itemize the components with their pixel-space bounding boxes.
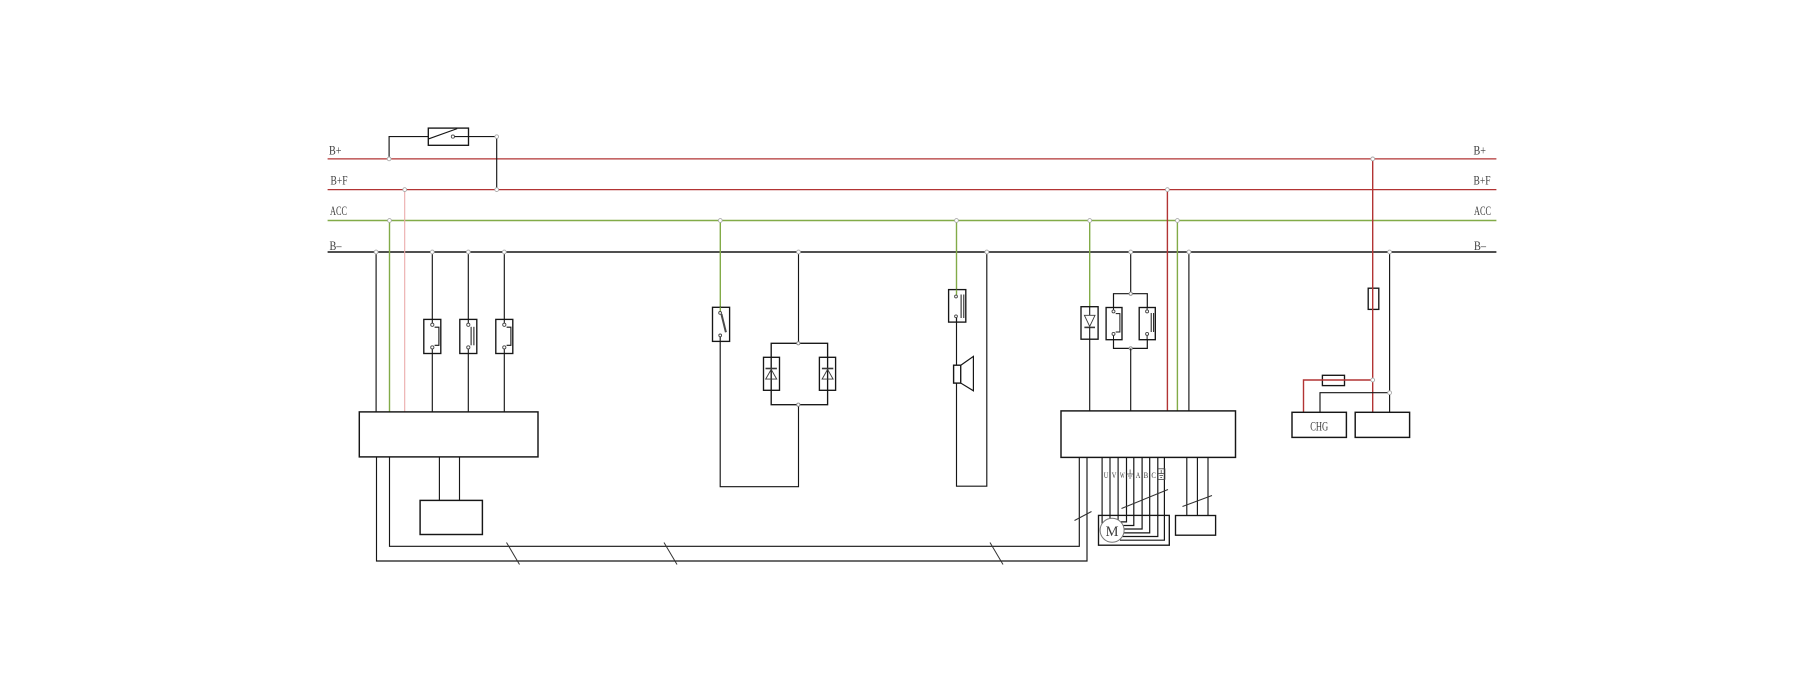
display box [420, 500, 482, 534]
switch SW2 [460, 319, 477, 353]
svg-text:C: C [1151, 470, 1156, 480]
wire box A to display feed 1 [438, 457, 440, 501]
label pin ground 1 [1127, 470, 1134, 479]
controller box B [1061, 411, 1236, 458]
wire drop green from ACC to control box A [389, 221, 391, 412]
relay K1 contact right [1139, 308, 1155, 340]
svg-text:B: B [1144, 470, 1149, 480]
node ACC at left green drop [388, 219, 392, 223]
bus B- (black) [328, 251, 1497, 253]
node B- at charger socket [1388, 250, 1392, 254]
node ACC at controller green drop [1176, 219, 1180, 223]
svg-text:V: V [1112, 470, 1117, 480]
svg-text:M: M [1106, 524, 1119, 540]
label pin ground 2 (boxed) [1158, 469, 1165, 480]
wire drop green ACC to controller [1176, 221, 1178, 411]
svg-text:B–: B– [330, 238, 342, 253]
node relay bottom [1129, 347, 1132, 350]
node black tee at charger [1388, 391, 1392, 395]
breaker S1 (battery master switch) [428, 128, 468, 145]
switch SW1 [424, 319, 441, 353]
node B- at relay K1 [1129, 250, 1133, 254]
pin GND2 hook wire [1123, 457, 1158, 536]
node B- at controller black drop [1187, 250, 1191, 254]
wire diode D3 to controller [1089, 339, 1091, 411]
relay K1 contact left [1106, 308, 1122, 340]
node ACC at key switch [718, 219, 722, 223]
node B- at box A drop [374, 250, 378, 254]
wire battery switch feed from B+ [389, 137, 428, 159]
svg-text:B+F: B+F [1474, 173, 1491, 188]
wire SW1 to control box A [431, 354, 433, 412]
node ACC at diode D3 [1088, 219, 1092, 223]
node breaker corner [495, 135, 499, 139]
wire black branch to CHG [1320, 393, 1390, 413]
node B- at SW2 [466, 250, 470, 254]
bus B+ (red) [328, 158, 1497, 160]
bus B+F (red) [328, 189, 1497, 191]
node relay top [1129, 292, 1132, 295]
relay K1 top bracket [1114, 294, 1148, 308]
wire drop B- to switch SW1 [431, 252, 433, 319]
buzzer LS1 body [954, 365, 961, 383]
wire drop green ACC to diode D3 [1089, 221, 1091, 307]
diode D1 (left, in rectifier) [764, 357, 780, 390]
door switch S3 [949, 290, 966, 323]
wire pins to sensor box 1 [1186, 457, 1188, 515]
harness slash mark 2 [664, 543, 677, 565]
CHG box [1292, 412, 1346, 437]
node B- at buzzer return [985, 250, 989, 254]
wire drop green ACC to door switch [956, 221, 958, 296]
wire drop B- to rectifier top [798, 252, 800, 343]
svg-text:CHG: CHG [1310, 418, 1328, 433]
svg-text:A: A [1136, 470, 1141, 480]
diode D2 symbol [822, 369, 833, 380]
wire drop black from B- to control box A [375, 252, 377, 412]
node B- at SW3 [502, 250, 506, 254]
wire red B+ to charger socket [1372, 159, 1374, 412]
motor M circle [1100, 518, 1124, 542]
wire drop black B- to controller [1188, 252, 1190, 411]
svg-text:ACC: ACC [1474, 203, 1491, 218]
wire box A to display feed 2 [459, 457, 461, 501]
pin B hook wire [1124, 457, 1142, 529]
sensor box [1176, 516, 1216, 536]
diode D3 [1081, 307, 1098, 340]
wire relay K1 to controller [1130, 348, 1132, 411]
wire harness lower run (box A to controller) [377, 457, 1088, 561]
node B+F at pink drop [403, 188, 407, 192]
node ACC at door switch [955, 219, 959, 223]
rectifier frame [771, 343, 827, 404]
wire SW2 to control box A [467, 354, 469, 412]
node B+ at charger feeder [1371, 157, 1375, 161]
pin shield hook wire [1120, 457, 1164, 540]
node rectifier top [797, 342, 800, 345]
wire red branch to CHG [1304, 380, 1373, 412]
motor housing box [1099, 515, 1170, 545]
pin C hook wire [1124, 457, 1150, 533]
slash mark motor signal wires [1122, 490, 1169, 509]
node B+F at controller red drop [1166, 188, 1170, 192]
wire door switch to B- via buzzer [957, 252, 987, 486]
diode D1 symbol [766, 369, 777, 380]
node rectifier bottom [797, 403, 800, 406]
wire SW3 to control box A [503, 354, 505, 412]
harness slash mark 3 [990, 543, 1003, 565]
node B- at rectifier [797, 250, 801, 254]
wire drop green ACC to key switch [719, 221, 721, 312]
switch SW3 [496, 319, 513, 353]
buzzer LS1 horn [961, 356, 974, 390]
svg-text:B–: B– [1474, 238, 1486, 253]
fuse F1 (on B+ feeder) [1368, 288, 1379, 309]
control box A [359, 412, 538, 457]
pin A hook wire [1123, 457, 1134, 525]
relay K1 bottom bracket [1114, 340, 1148, 349]
wire pins to sensor box 3 [1207, 457, 1209, 515]
wire drop B- to switch SW3 [503, 252, 505, 319]
wire pins to sensor box 2 [1196, 457, 1198, 515]
wire drop red B+F to controller [1166, 190, 1168, 411]
node B+F at breaker return [495, 188, 499, 192]
harness slash mark 4 (risers) [1075, 512, 1092, 521]
svg-text:B+: B+ [329, 143, 342, 158]
svg-text:U: U [1104, 470, 1109, 480]
wire drop B- to switch SW2 [467, 252, 469, 319]
wire breaker output to B+F [455, 137, 497, 190]
pin U wire [1101, 457, 1103, 523]
pin V wire [1109, 457, 1111, 518]
wire drop pink from B+F to control box A [404, 190, 406, 412]
svg-text:W: W [1120, 470, 1125, 480]
diode D2 (right, in rectifier) [819, 357, 835, 390]
node B+ at breaker [387, 157, 391, 161]
harness slash mark 1 [507, 543, 520, 565]
wire black B- to charger socket [1389, 252, 1391, 412]
fuse F2 (charger feed) [1322, 375, 1344, 385]
svg-text:ACC: ACC [330, 203, 347, 218]
key switch S2 [713, 307, 730, 341]
pin W wire [1117, 457, 1119, 520]
wire key switch to rectifier bottom [720, 337, 798, 487]
wire drop B- to relay K1 [1130, 252, 1132, 294]
svg-text:B+: B+ [1474, 143, 1487, 158]
node red tee at charger [1371, 378, 1375, 382]
pin GND1 hook wire [1121, 457, 1127, 522]
node B- at SW1 [430, 250, 434, 254]
svg-text:B+F: B+F [331, 173, 348, 188]
junction nodes on buses [374, 157, 1391, 395]
charger socket box [1355, 412, 1409, 437]
slash mark sensor wires [1183, 496, 1213, 507]
wire harness upper run (box A to controller) [390, 457, 1080, 546]
bus ACC (green) [328, 220, 1497, 222]
